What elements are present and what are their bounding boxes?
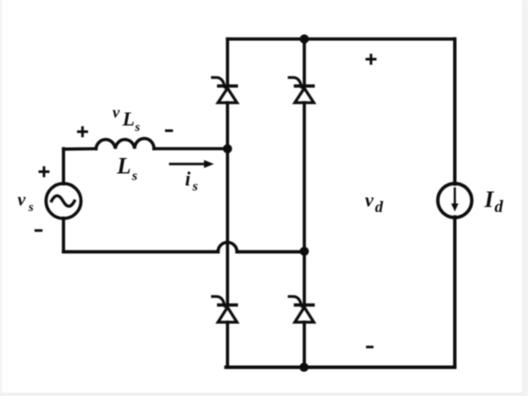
svg-text:v: v bbox=[113, 105, 121, 122]
svg-text:s: s bbox=[192, 180, 199, 195]
svg-text:I: I bbox=[484, 187, 495, 212]
svg-text:s: s bbox=[28, 199, 34, 214]
svg-text:L: L bbox=[122, 109, 135, 131]
svg-text:v: v bbox=[365, 190, 374, 211]
svg-text:s: s bbox=[134, 119, 140, 134]
svg-text:i: i bbox=[185, 169, 191, 191]
svg-text:s: s bbox=[131, 169, 138, 184]
svg-text:L: L bbox=[116, 154, 131, 179]
svg-text:d: d bbox=[375, 199, 384, 216]
svg-text:d: d bbox=[495, 197, 504, 216]
svg-text:v: v bbox=[18, 189, 27, 209]
